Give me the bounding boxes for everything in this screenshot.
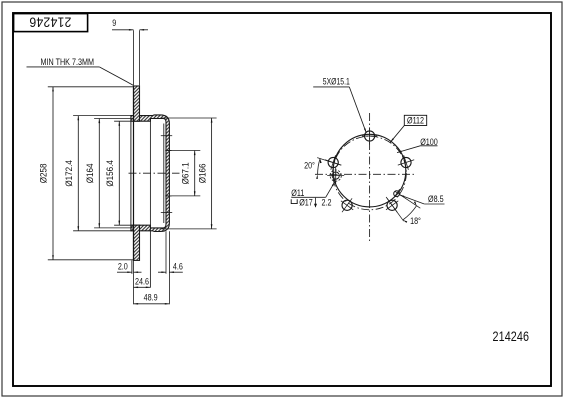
svg-text:24.6: 24.6 <box>135 277 149 287</box>
svg-text:48.9: 48.9 <box>144 293 158 303</box>
svg-text:Ø17: Ø17 <box>299 198 313 208</box>
svg-text:MIN THK 7.3MM: MIN THK 7.3MM <box>41 57 95 67</box>
svg-text:20°: 20° <box>304 161 315 171</box>
svg-text:9: 9 <box>112 18 116 28</box>
svg-text:214246: 214246 <box>493 329 530 344</box>
svg-text:214246: 214246 <box>29 14 71 30</box>
svg-text:Ø164: Ø164 <box>84 163 95 183</box>
svg-text:18°: 18° <box>410 216 421 226</box>
svg-text:5XØ15.1: 5XØ15.1 <box>323 76 350 86</box>
svg-text:2.0: 2.0 <box>118 262 128 272</box>
svg-text:2.2: 2.2 <box>322 198 332 208</box>
svg-text:4.6: 4.6 <box>173 262 183 272</box>
svg-text:Ø8.5: Ø8.5 <box>428 194 444 204</box>
svg-text:Ø112: Ø112 <box>407 116 424 126</box>
svg-text:Ø166: Ø166 <box>197 163 208 183</box>
svg-text:Ø172.4: Ø172.4 <box>63 160 74 187</box>
svg-text:Ø67.1: Ø67.1 <box>180 162 191 184</box>
svg-text:Ø156.4: Ø156.4 <box>104 160 115 187</box>
svg-text:Ø258: Ø258 <box>38 163 49 183</box>
